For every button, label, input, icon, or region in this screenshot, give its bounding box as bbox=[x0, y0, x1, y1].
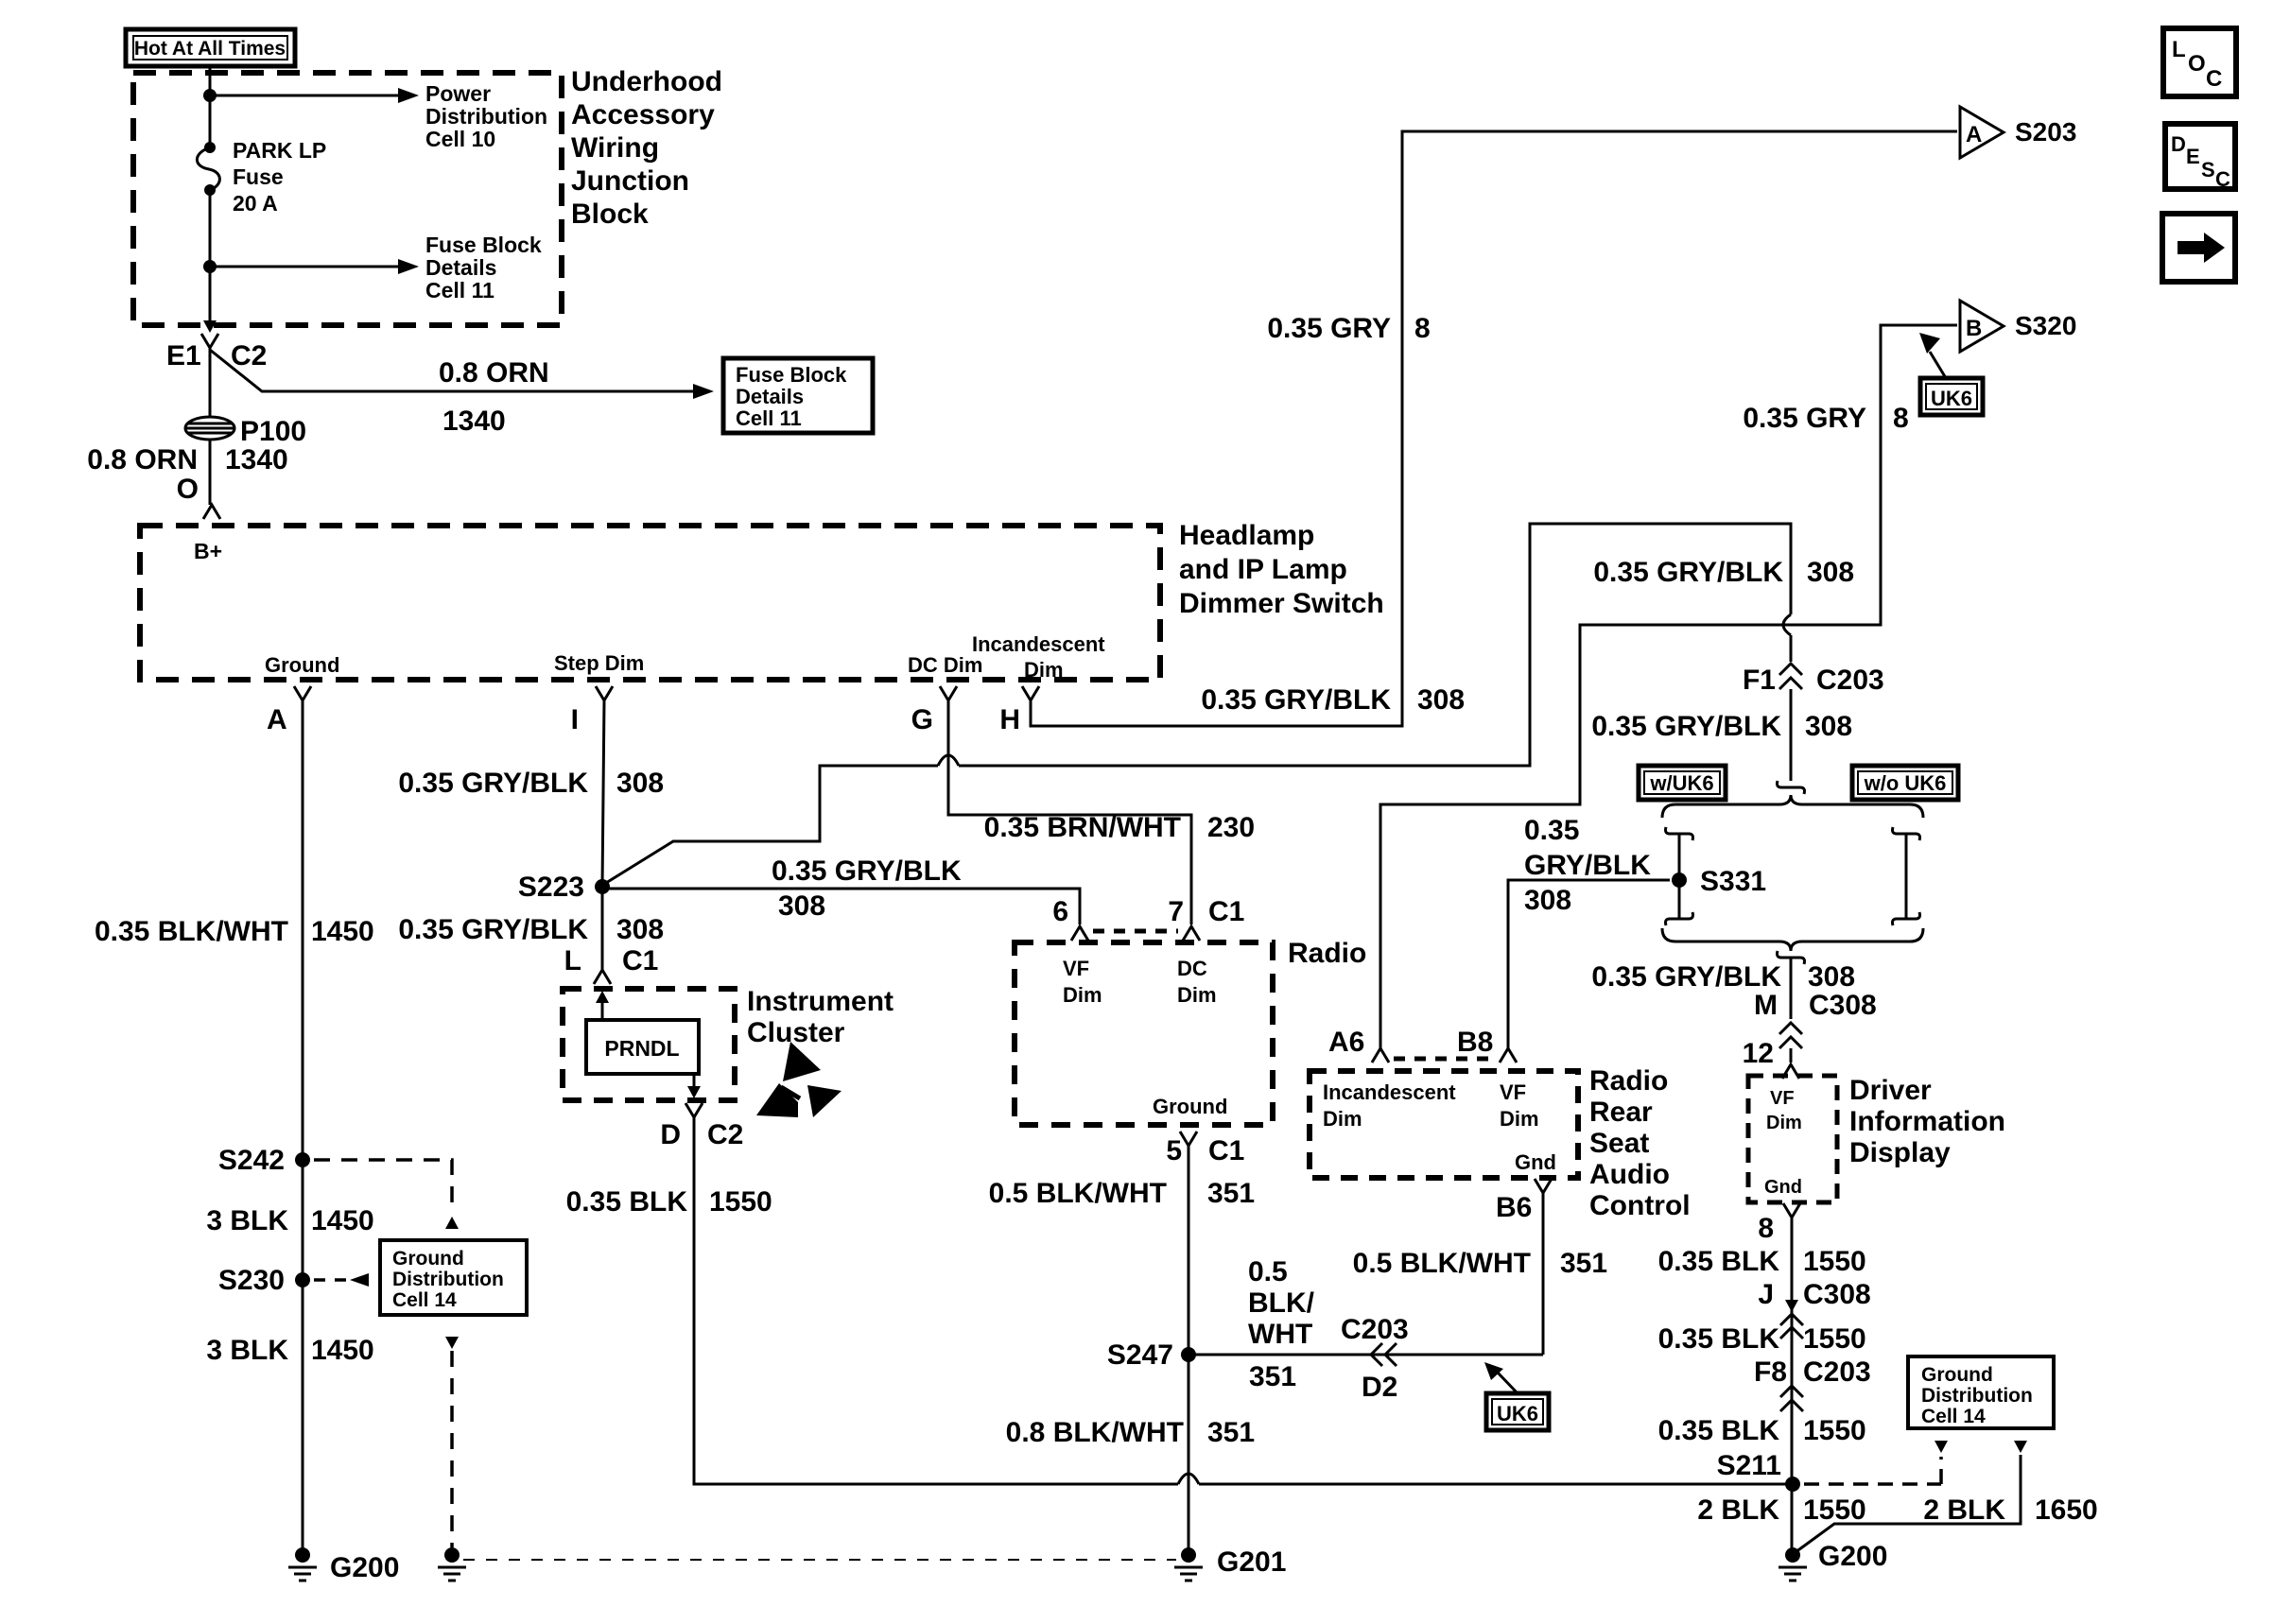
svg-text:G201: G201 bbox=[1217, 1546, 1286, 1578]
svg-text:0.35 GRY/BLK: 0.35 GRY/BLK bbox=[398, 768, 588, 799]
svg-text:308: 308 bbox=[1417, 684, 1465, 716]
right coupler half (w/o UK6 path) bbox=[1893, 827, 1920, 840]
svg-text:VF: VF bbox=[1770, 1088, 1795, 1109]
svg-text:C308: C308 bbox=[1803, 1279, 1871, 1310]
svg-text:S331: S331 bbox=[1700, 866, 1766, 897]
svg-text:0.5 BLK/WHT: 0.5 BLK/WHT bbox=[1353, 1248, 1531, 1279]
svg-text:20 A: 20 A bbox=[233, 191, 278, 216]
pin B8 fork bbox=[1500, 1048, 1517, 1063]
svg-text:351: 351 bbox=[1207, 1417, 1255, 1448]
svg-text:308: 308 bbox=[616, 914, 664, 945]
wire: ground A down to G200 bbox=[302, 700, 304, 1555]
svg-text:UK6: UK6 bbox=[1497, 1402, 1538, 1425]
svg-text:Cell 14: Cell 14 bbox=[1921, 1406, 1986, 1427]
svg-text:G200: G200 bbox=[1818, 1541, 1887, 1572]
svg-text:S211: S211 bbox=[1717, 1450, 1781, 1481]
svg-text:8: 8 bbox=[1758, 1213, 1774, 1244]
off-page connector triangle A S203 bbox=[1960, 107, 2004, 158]
svg-text:Fuse Block: Fuse Block bbox=[736, 363, 847, 387]
node: junction to Fuse Block Details bbox=[203, 260, 217, 273]
svg-text:1340: 1340 bbox=[225, 444, 288, 475]
svg-text:Dim: Dim bbox=[1323, 1107, 1362, 1131]
radio ground pin 5 C1 fork bbox=[1180, 1132, 1197, 1146]
svg-text:Dim: Dim bbox=[1766, 1113, 1802, 1133]
svg-text:Fuse Block: Fuse Block bbox=[425, 233, 542, 257]
svg-text:0.35 GRY/BLK: 0.35 GRY/BLK bbox=[1591, 711, 1781, 742]
svg-text:M: M bbox=[1754, 990, 1778, 1021]
svg-text:Details: Details bbox=[736, 385, 804, 408]
svg-text:1450: 1450 bbox=[311, 1205, 374, 1236]
svg-text:0.35 GRY/BLK: 0.35 GRY/BLK bbox=[398, 914, 588, 945]
svg-text:Radio: Radio bbox=[1288, 938, 1366, 969]
svg-text:1550: 1550 bbox=[1803, 1323, 1866, 1355]
svg-text:3 BLK: 3 BLK bbox=[206, 1205, 288, 1236]
svg-text:Cell 11: Cell 11 bbox=[425, 278, 495, 302]
wire B6 down to S247 branch bbox=[1542, 1193, 1545, 1355]
svg-text:308: 308 bbox=[778, 890, 825, 922]
svg-text:0.35 GRY/BLK: 0.35 GRY/BLK bbox=[1593, 557, 1783, 588]
svg-text:Gnd: Gnd bbox=[1515, 1150, 1556, 1174]
wire: DC Dim G down and right to radio pin 7 bbox=[948, 700, 1191, 924]
legend box DESC bbox=[2165, 124, 2235, 189]
svg-text:C1: C1 bbox=[622, 945, 658, 976]
wire radio pin 5 ground down to G201 bbox=[1188, 1146, 1190, 1555]
svg-text:0.35 BRN/WHT: 0.35 BRN/WHT bbox=[984, 812, 1181, 843]
wire: Step Dim I down to S223 and L C1 bbox=[602, 700, 604, 887]
off-page connector triangle B S320 bbox=[1960, 301, 2004, 352]
dashed box Instrument Cluster bbox=[563, 989, 735, 1100]
option flag UK6 (upper) bbox=[1920, 378, 1983, 415]
svg-text:C203: C203 bbox=[1816, 665, 1884, 696]
arrow: feed exits junction block bottom bbox=[203, 320, 217, 333]
arrow into PRNDL bbox=[601, 994, 604, 1020]
svg-text:A: A bbox=[1966, 122, 1982, 147]
svg-text:Cell 14: Cell 14 bbox=[392, 1289, 457, 1311]
svg-text:308: 308 bbox=[616, 768, 664, 799]
ground G200 (left) bbox=[295, 1547, 310, 1563]
svg-text:S320: S320 bbox=[2015, 311, 2076, 340]
brace top of S331 splice options bbox=[1662, 795, 1923, 818]
svg-text:A: A bbox=[267, 704, 287, 735]
svg-text:DC: DC bbox=[1177, 957, 1207, 980]
pin H fork (Incandescent Dim) bbox=[1022, 686, 1039, 700]
svg-text:S242: S242 bbox=[218, 1145, 285, 1176]
svg-text:C1: C1 bbox=[1208, 896, 1244, 927]
svg-text:B8: B8 bbox=[1457, 1027, 1493, 1058]
svg-text:230: 230 bbox=[1207, 812, 1255, 843]
svg-text:and IP Lamp: and IP Lamp bbox=[1179, 554, 1347, 585]
dashed box Radio bbox=[1015, 942, 1273, 1125]
svg-text:UK6: UK6 bbox=[1931, 387, 1972, 410]
svg-text:351: 351 bbox=[1249, 1361, 1296, 1392]
splice S247 bbox=[1181, 1347, 1196, 1362]
svg-text:8: 8 bbox=[1893, 403, 1909, 434]
left coupler half (w/UK6 path) bbox=[1666, 827, 1693, 840]
svg-text:Seat: Seat bbox=[1589, 1128, 1649, 1159]
wire S247 right through C203 D2 to radio rear seat Gnd B6 bbox=[1189, 1354, 1543, 1356]
svg-text:C203: C203 bbox=[1803, 1356, 1871, 1388]
splice S230 bbox=[295, 1272, 310, 1287]
pin G fork (DC Dim) bbox=[940, 686, 957, 700]
svg-text:L: L bbox=[564, 945, 581, 976]
svg-text:Wiring: Wiring bbox=[571, 132, 659, 164]
svg-text:Dimmer Switch: Dimmer Switch bbox=[1179, 588, 1384, 619]
svg-text:C2: C2 bbox=[707, 1119, 743, 1150]
svg-text:0.35 BLK/WHT: 0.35 BLK/WHT bbox=[95, 916, 288, 947]
svg-text:w/o UK6: w/o UK6 bbox=[1864, 771, 1947, 795]
svg-text:1650: 1650 bbox=[2035, 1494, 2098, 1526]
inline connector P100 bbox=[185, 417, 234, 440]
svg-text:O: O bbox=[2188, 51, 2206, 77]
svg-text:F8: F8 bbox=[1754, 1356, 1787, 1388]
connector L C1 fork bbox=[594, 970, 611, 984]
box Ground Distribution Cell 14 (left) bbox=[380, 1240, 527, 1315]
svg-text:PARK LP: PARK LP bbox=[233, 138, 326, 163]
svg-text:8: 8 bbox=[1414, 313, 1431, 344]
svg-text:0.5: 0.5 bbox=[1248, 1256, 1288, 1287]
svg-text:0.35: 0.35 bbox=[1524, 815, 1579, 846]
svg-text:w/UK6: w/UK6 bbox=[1649, 771, 1713, 795]
svg-text:Headlamp: Headlamp bbox=[1179, 520, 1314, 551]
svg-text:Accessory: Accessory bbox=[571, 99, 715, 130]
svg-text:J: J bbox=[1758, 1279, 1774, 1310]
splice S242 bbox=[295, 1152, 310, 1167]
svg-text:0.8 ORN: 0.8 ORN bbox=[439, 357, 549, 389]
legend box forward arrow bbox=[2162, 214, 2235, 282]
svg-text:G: G bbox=[911, 704, 933, 735]
wire DID ground down to G200 bbox=[1791, 1218, 1794, 1555]
wire P100 down to dimmer switch B+ bbox=[209, 441, 212, 505]
svg-text:G200: G200 bbox=[330, 1552, 399, 1583]
svg-text:L: L bbox=[2172, 37, 2186, 62]
svg-text:E: E bbox=[2186, 145, 2200, 168]
svg-text:Dim: Dim bbox=[1500, 1107, 1539, 1131]
dashed box Radio Rear Seat Audio Control bbox=[1310, 1071, 1578, 1178]
thin dashed ground bus G200 to G201 bbox=[463, 1559, 1176, 1561]
svg-text:F1: F1 bbox=[1743, 665, 1776, 696]
svg-text:Display: Display bbox=[1849, 1137, 1951, 1168]
svg-text:S203: S203 bbox=[2015, 117, 2076, 147]
svg-text:12: 12 bbox=[1743, 1038, 1774, 1069]
svg-text:D: D bbox=[660, 1119, 681, 1150]
svg-text:Rear: Rear bbox=[1589, 1097, 1653, 1128]
svg-text:P100: P100 bbox=[240, 416, 306, 447]
svg-text:VF: VF bbox=[1063, 957, 1089, 980]
svg-text:0.35 BLK: 0.35 BLK bbox=[1658, 1323, 1780, 1355]
svg-text:Distribution: Distribution bbox=[1921, 1385, 2033, 1407]
svg-text:S247: S247 bbox=[1107, 1339, 1173, 1371]
fuse PARK LP 20 A bbox=[204, 142, 216, 153]
svg-text:B: B bbox=[1966, 316, 1982, 341]
wire hump over B wire then down to C203 bbox=[1780, 524, 1791, 614]
svg-text:PRNDL: PRNDL bbox=[604, 1036, 679, 1061]
pin A fork (Ground) bbox=[294, 686, 311, 700]
box: Hot At All Times power feed label bbox=[126, 29, 295, 66]
wire: Incandescent Dim H right and up to off-page triangle A S203 bbox=[1031, 131, 1957, 726]
svg-text:C2: C2 bbox=[231, 340, 267, 371]
svg-text:Power: Power bbox=[425, 81, 491, 106]
svg-text:C: C bbox=[2215, 167, 2230, 191]
svg-text:0.8 ORN: 0.8 ORN bbox=[87, 444, 198, 475]
svg-text:0.35 BLK: 0.35 BLK bbox=[1658, 1246, 1780, 1277]
wire 2 BLK 1650 from Ground Distribution down to G200 bbox=[2014, 1441, 2027, 1453]
svg-text:DC Dim: DC Dim bbox=[908, 653, 982, 677]
pin 8 fork below DID bbox=[1783, 1203, 1800, 1218]
svg-text:Dim: Dim bbox=[1024, 658, 1064, 682]
svg-text:H: H bbox=[999, 704, 1020, 735]
svg-text:0.35 GRY/BLK: 0.35 GRY/BLK bbox=[1591, 961, 1781, 993]
svg-text:Junction: Junction bbox=[571, 165, 689, 197]
wire C203 to S331 coupler bbox=[1790, 689, 1793, 781]
arrow + dashed wire from Ground Distribution box down to G200 bbox=[445, 1337, 459, 1349]
svg-text:S: S bbox=[2201, 158, 2215, 181]
svg-text:GRY/BLK: GRY/BLK bbox=[1524, 850, 1651, 881]
svg-text:1550: 1550 bbox=[1803, 1415, 1866, 1446]
legend box LOC bbox=[2163, 28, 2236, 96]
svg-text:O: O bbox=[177, 474, 199, 505]
svg-text:2 BLK: 2 BLK bbox=[1923, 1494, 2005, 1526]
wire B8 up to S331 bbox=[1508, 880, 1670, 1048]
svg-text:A6: A6 bbox=[1328, 1027, 1364, 1058]
svg-text:Details: Details bbox=[425, 255, 496, 280]
connector F1 C203 chevrons bbox=[1779, 664, 1802, 675]
dashed connector face between pins 6 and 7 bbox=[1093, 929, 1178, 934]
svg-text:0.5 BLK/WHT: 0.5 BLK/WHT bbox=[989, 1178, 1167, 1209]
ground symbol at Ground Distribution dashed drop bbox=[444, 1547, 460, 1563]
svg-text:351: 351 bbox=[1560, 1248, 1607, 1279]
svg-text:I: I bbox=[571, 704, 579, 735]
splice S223 bbox=[595, 879, 610, 894]
wire A6 up to off-page triangle B S320 bbox=[1380, 325, 1957, 1048]
box Ground Distribution Cell 14 (right) bbox=[1908, 1356, 2054, 1428]
wire branch 0.8 ORN 1340 to Fuse Block Details box bbox=[210, 350, 700, 391]
svg-text:D2: D2 bbox=[1362, 1372, 1397, 1403]
wire S223 up-right to F1 C203 (instrument dim feed) bbox=[606, 766, 938, 883]
svg-text:C203: C203 bbox=[1341, 1314, 1409, 1345]
svg-text:1550: 1550 bbox=[1803, 1494, 1866, 1526]
svg-text:308: 308 bbox=[1805, 711, 1852, 742]
svg-text:3 BLK: 3 BLK bbox=[206, 1335, 288, 1366]
svg-text:1450: 1450 bbox=[311, 916, 374, 947]
box PRNDL bbox=[586, 1020, 699, 1074]
dashed wire S230 from Ground Distribution bbox=[314, 1278, 346, 1282]
svg-text:Instrument: Instrument bbox=[747, 986, 894, 1017]
svg-text:Fuse: Fuse bbox=[233, 164, 284, 189]
svg-text:0.35 BLK: 0.35 BLK bbox=[566, 1186, 688, 1218]
svg-text:Ground: Ground bbox=[1921, 1364, 1993, 1386]
svg-text:Ground: Ground bbox=[265, 653, 339, 677]
svg-text:1550: 1550 bbox=[1803, 1246, 1866, 1277]
pin I fork (Step Dim) bbox=[596, 686, 613, 700]
svg-text:5: 5 bbox=[1166, 1135, 1182, 1166]
svg-text:1340: 1340 bbox=[442, 406, 506, 437]
svg-text:Hot At All Times: Hot At All Times bbox=[134, 38, 286, 60]
connector E1 C2 fork bbox=[201, 334, 218, 348]
svg-text:Incandescent: Incandescent bbox=[1323, 1080, 1456, 1104]
dashed box Underhood Accessory Wiring Junction Block bbox=[133, 73, 562, 325]
wire D C2 ground down then right to S211 bbox=[694, 1117, 1178, 1484]
wire E1 to P100 bbox=[209, 348, 212, 417]
svg-text:Cell 10: Cell 10 bbox=[425, 127, 495, 151]
svg-text:1550: 1550 bbox=[709, 1186, 772, 1218]
svg-text:C: C bbox=[2206, 66, 2222, 92]
svg-text:Gnd: Gnd bbox=[1764, 1177, 1802, 1198]
pin A6 fork bbox=[1372, 1048, 1389, 1063]
svg-text:C308: C308 bbox=[1809, 990, 1877, 1021]
wire S331 output down to M C308 bbox=[1778, 951, 1805, 964]
wire arrow to Fuse Block Details Cell 11 bbox=[210, 266, 405, 268]
dashed box Driver Information Display bbox=[1748, 1076, 1837, 1202]
wire: battery feed vertical from Hot At All Times into junction block bbox=[209, 66, 212, 147]
svg-text:2 BLK: 2 BLK bbox=[1697, 1494, 1779, 1526]
dashed wire S211 to Ground Distribution Cell 14 (right) bbox=[1804, 1482, 1941, 1486]
svg-text:0.35 GRY/BLK: 0.35 GRY/BLK bbox=[772, 855, 962, 887]
svg-text:Audio: Audio bbox=[1589, 1159, 1670, 1190]
svg-text:Cluster: Cluster bbox=[747, 1017, 845, 1048]
svg-text:Cell 11: Cell 11 bbox=[736, 406, 802, 430]
svg-text:Driver: Driver bbox=[1849, 1075, 1932, 1106]
option box w/UK6 bbox=[1639, 766, 1726, 800]
svg-text:1450: 1450 bbox=[311, 1335, 374, 1366]
node: junction to Power Distribution bbox=[203, 89, 217, 102]
svg-text:S230: S230 bbox=[218, 1265, 285, 1296]
wire PRNDL down to D C2 bbox=[693, 1074, 696, 1095]
svg-text:D: D bbox=[2171, 132, 2186, 156]
svg-text:Block: Block bbox=[571, 199, 649, 230]
wire arrow to Power Distribution Cell 10 bbox=[210, 95, 405, 97]
svg-text:VF: VF bbox=[1500, 1080, 1526, 1104]
svg-text:Radio: Radio bbox=[1589, 1065, 1668, 1097]
dashed wire S242 to Ground Distribution Cell 14 bbox=[314, 1160, 452, 1213]
svg-text:Information: Information bbox=[1849, 1106, 2005, 1137]
svg-text:Distribution: Distribution bbox=[425, 104, 547, 129]
option box w/o UK6 bbox=[1852, 766, 1958, 800]
svg-text:S223: S223 bbox=[518, 872, 584, 903]
svg-text:BLK/: BLK/ bbox=[1248, 1287, 1315, 1319]
svg-text:0.35 GRY: 0.35 GRY bbox=[1743, 403, 1866, 434]
svg-text:308: 308 bbox=[1524, 885, 1571, 916]
connector D C2 fork bbox=[685, 1103, 703, 1117]
svg-text:WHT: WHT bbox=[1248, 1319, 1312, 1350]
svg-text:7: 7 bbox=[1168, 896, 1184, 927]
svg-text:0.8 BLK/WHT: 0.8 BLK/WHT bbox=[1006, 1417, 1184, 1448]
svg-text:0.35 GRY: 0.35 GRY bbox=[1267, 313, 1391, 344]
ESD static sensitive symbol bbox=[783, 1042, 821, 1081]
svg-text:Control: Control bbox=[1589, 1190, 1691, 1221]
wire S223 to radio pin 6 bbox=[602, 889, 1080, 924]
svg-text:Ground: Ground bbox=[1153, 1095, 1227, 1118]
svg-text:Incandescent: Incandescent bbox=[972, 632, 1105, 656]
svg-text:Ground: Ground bbox=[392, 1248, 464, 1270]
svg-text:B+: B+ bbox=[194, 539, 222, 563]
dashed box Headlamp and IP Lamp Dimmer Switch bbox=[140, 526, 1160, 680]
box Fuse Block Details Cell 11 bbox=[723, 358, 873, 433]
option flag UK6 (lower) bbox=[1486, 1393, 1549, 1430]
ground G200 (right) bbox=[1785, 1547, 1800, 1563]
svg-text:Dim: Dim bbox=[1177, 983, 1217, 1007]
svg-text:Distribution: Distribution bbox=[392, 1269, 504, 1290]
svg-text:308: 308 bbox=[1807, 557, 1854, 588]
brace bottom of S331 splice options bbox=[1662, 928, 1923, 951]
splice S331 bbox=[1672, 872, 1687, 888]
connector C203 D2 chevrons bbox=[1371, 1343, 1382, 1366]
svg-text:Underhood: Underhood bbox=[571, 66, 722, 97]
ground G201 bbox=[1181, 1547, 1196, 1563]
svg-text:308: 308 bbox=[1808, 961, 1855, 993]
svg-text:C1: C1 bbox=[1208, 1135, 1244, 1166]
svg-text:B6: B6 bbox=[1496, 1192, 1532, 1223]
svg-text:351: 351 bbox=[1207, 1178, 1255, 1209]
svg-text:E1: E1 bbox=[166, 340, 201, 371]
svg-text:6: 6 bbox=[1052, 896, 1068, 927]
svg-text:0.35 GRY/BLK: 0.35 GRY/BLK bbox=[1201, 684, 1391, 716]
svg-text:Dim: Dim bbox=[1063, 983, 1102, 1007]
pin Gnd B6 fork bbox=[1535, 1179, 1552, 1193]
svg-text:0.35 BLK: 0.35 BLK bbox=[1658, 1415, 1780, 1446]
svg-text:Step Dim: Step Dim bbox=[554, 651, 644, 675]
dashed connector face between A6 and B8 bbox=[1394, 1057, 1496, 1062]
